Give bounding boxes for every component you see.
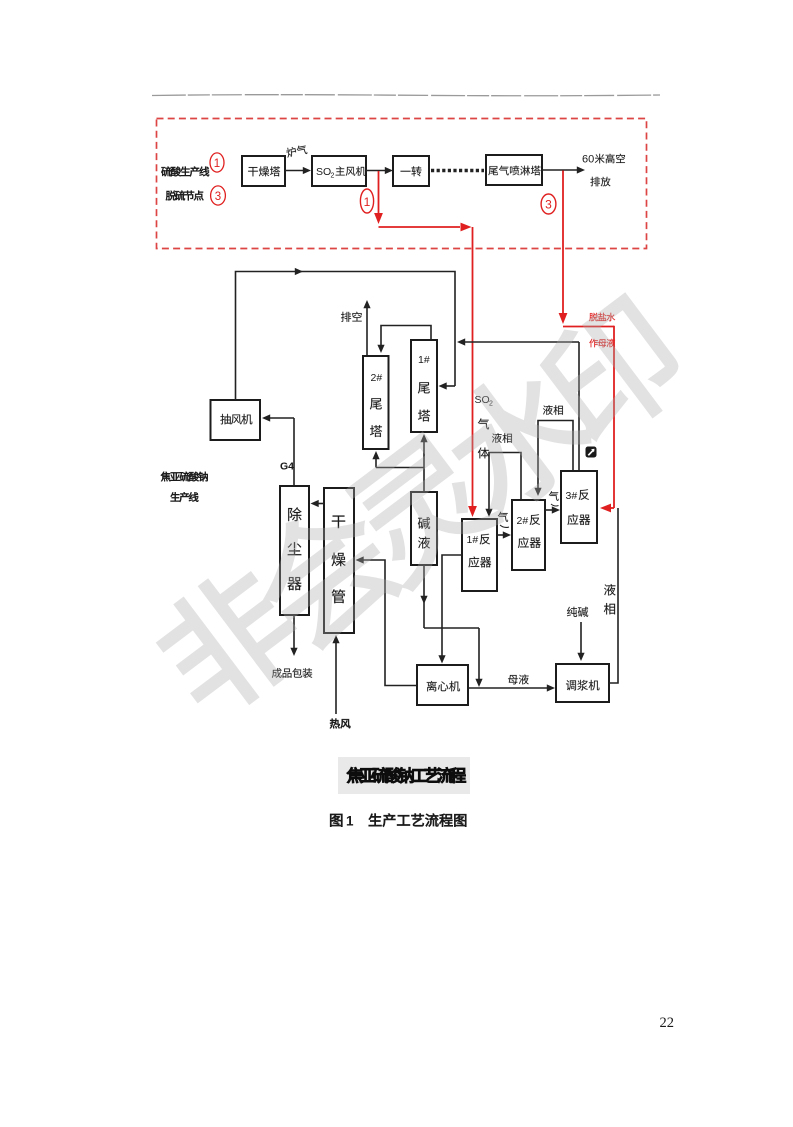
- wire 抽风机 up and over to 1#尾塔: [236, 272, 456, 401]
- red dashed boundary (sulfuric acid line battery limit): [157, 119, 647, 249]
- red wire elbow to the right: [379, 226, 461, 228]
- arrow 干燥管 to 除尘器: [316, 503, 324, 505]
- box SO2主风机: [312, 156, 366, 186]
- red wire desalted water down: [562, 171, 564, 319]
- svg-text:2: 2: [331, 173, 335, 180]
- svg-text:2#: 2#: [517, 515, 529, 527]
- svg-text:3: 3: [545, 198, 552, 212]
- arrow 1#反应器 to 2#反应器: [497, 534, 505, 536]
- wire 除尘器 down to 成品包装: [293, 615, 295, 650]
- dotted line 一转 to 尾气喷淋塔: [431, 169, 484, 172]
- wire 碱液 down to 母液 line: [423, 565, 425, 628]
- wire 离心机 to 干燥管: [361, 560, 417, 686]
- title 焦亚硫酸钠工艺流程: [347, 767, 362, 782]
- red wire SO2 gas branch down: [378, 171, 380, 220]
- wire 除尘器 to 抽风机: [268, 417, 294, 419]
- label 成品包装: [272, 668, 282, 678]
- svg-text:60: 60: [582, 154, 594, 166]
- label 炉气: [286, 144, 308, 158]
- box 离心机: [417, 665, 468, 705]
- box 干燥管: [324, 488, 354, 633]
- wire 热风 up into 干燥管: [335, 640, 337, 714]
- label 液相 (vertical): [604, 584, 616, 596]
- red arrow into 3#反应器: [606, 507, 614, 509]
- svg-text:SO: SO: [316, 166, 331, 178]
- alkali feed wires up into tail towers: [376, 467, 424, 469]
- red wire elbow right: [563, 326, 614, 328]
- box 干燥塔: [242, 156, 285, 186]
- box 调浆机: [556, 664, 609, 702]
- svg-text:22: 22: [660, 1015, 675, 1031]
- red wire SO2 gas down to 1#反应器: [472, 227, 474, 511]
- label 母液: [508, 675, 518, 684]
- svg-text:1#: 1#: [467, 534, 479, 546]
- label 排空: [341, 312, 351, 322]
- wire liquid phase 2#反应器 to 1#反应器: [489, 453, 521, 512]
- svg-text:3: 3: [215, 191, 221, 203]
- arrow SO2主风机 to 一转: [366, 170, 387, 172]
- wire 3#反应器 gas to tail tower line: [462, 341, 579, 343]
- wire 1#反应器 down to 离心机: [442, 555, 462, 658]
- svg-text:1: 1: [214, 158, 220, 170]
- svg-text:1: 1: [346, 814, 354, 829]
- circled 3 (legend): [211, 186, 226, 205]
- arrow 干燥塔 to SO2主风机: [285, 170, 304, 172]
- circled 1 (legend): [210, 153, 224, 172]
- G3 marker: [586, 447, 597, 458]
- watermark 非会灵水印: [143, 289, 694, 728]
- box 除尘器: [280, 486, 309, 615]
- box 1#反应器: [462, 519, 497, 591]
- label 气 (1# to 2#): [498, 512, 508, 522]
- label 热风: [330, 719, 340, 729]
- svg-text:2#: 2#: [371, 372, 383, 384]
- box 2#反应器: [512, 500, 545, 570]
- svg-text:3#: 3#: [566, 490, 578, 502]
- label 气 (2# to 3#): [549, 491, 559, 501]
- box 碱液: [411, 492, 437, 565]
- wire 离心机 to 调浆机 (母液): [468, 687, 548, 689]
- arrow 尾气喷淋塔 to 60米高空排放: [542, 169, 578, 171]
- svg-text:G4: G4: [280, 461, 294, 473]
- vent wire up from 2#尾塔: [366, 305, 368, 356]
- box 尾气喷淋塔: [486, 155, 542, 185]
- label 作母液 (red): [589, 339, 598, 347]
- red circled 1 (node): [360, 189, 373, 213]
- red wire down to 3#反应器: [613, 326, 615, 508]
- box 1#尾塔: [411, 340, 437, 432]
- wire 1#尾塔 to 2#尾塔: [381, 326, 431, 348]
- red circled 3 (node): [541, 194, 556, 214]
- svg-text:1#: 1#: [418, 354, 430, 366]
- wire 调浆机 up to 3#反应器 (液相): [609, 508, 618, 683]
- label 硫酸生产线: [161, 167, 171, 177]
- label 焦亚硫酸钠生产线: [161, 472, 171, 482]
- label 纯碱: [567, 607, 577, 617]
- caption 图1 生产工艺流程图: [330, 814, 342, 827]
- arrow into 1#尾塔 right side: [443, 385, 455, 387]
- title halo: [338, 757, 470, 794]
- box 抽风机: [211, 400, 261, 440]
- label 脱硫节点: [166, 191, 176, 201]
- box 3#反应器: [561, 471, 597, 543]
- label 液相 (into 1#反应器): [492, 433, 502, 443]
- arrow 2#反应器 to 3#反应器: [545, 509, 554, 511]
- box 一转: [393, 156, 429, 186]
- box 2#尾塔: [363, 356, 389, 449]
- wire 纯碱 into 调浆机: [580, 622, 582, 655]
- wire liquid phase 3#反应器 to 2#反应器: [538, 421, 573, 491]
- svg-text:1: 1: [364, 195, 371, 209]
- scan artifact faint line: [152, 95, 660, 96]
- label 脱盐水 (red): [589, 313, 598, 321]
- label 液相 (into 2#反应器): [543, 405, 553, 415]
